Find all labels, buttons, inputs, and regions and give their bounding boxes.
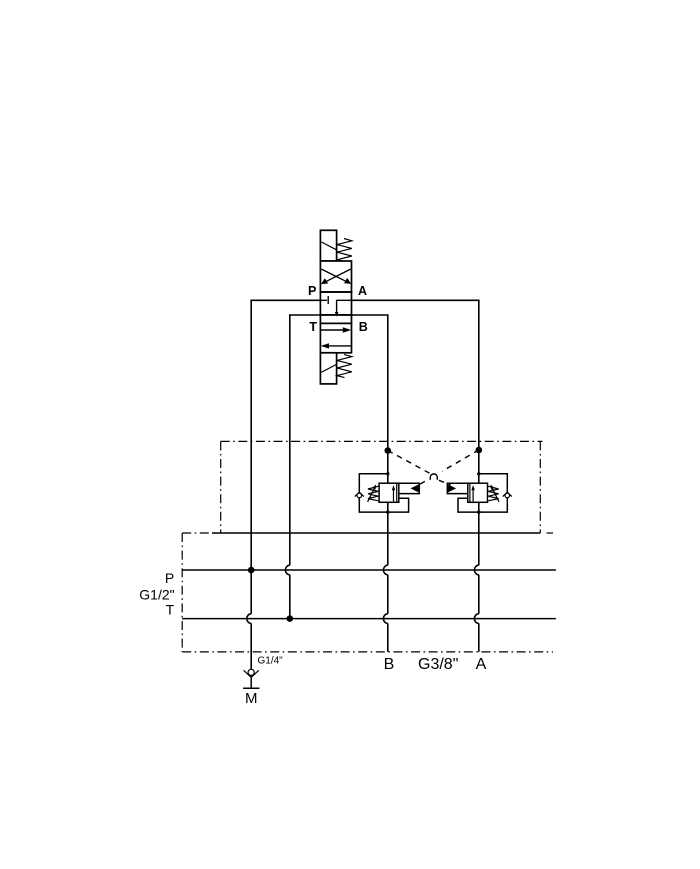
- boundary box of counterbalance block: [221, 441, 543, 533]
- check valve ball: [357, 493, 362, 498]
- valve gap zone box: [320, 315, 351, 324]
- wire hop: T-branch over P line: [285, 565, 289, 575]
- solenoid box bottom: [320, 353, 336, 384]
- junction node CB2 bottom: [477, 510, 480, 513]
- solenoid slash bottom: [321, 364, 336, 372]
- wire hop: A over T line: [474, 614, 478, 624]
- blocked P stub: [320, 296, 328, 304]
- wire B: valve B port down through left counterbalance valve: [352, 315, 388, 652]
- junction node T line: [287, 615, 294, 622]
- svg-text:G3/8": G3/8": [418, 656, 458, 673]
- check valve ball M: [248, 669, 254, 675]
- flow arrow up: [393, 490, 395, 502]
- body divider: [396, 483, 398, 502]
- wire hop: B over T line: [383, 614, 387, 624]
- counterbalance valve CB1 (left, on B line): [355, 474, 420, 512]
- parallel path arrow right: [320, 329, 344, 331]
- solenoid box top: [320, 230, 336, 261]
- spring: [488, 486, 499, 501]
- manifold boundary: [182, 533, 553, 652]
- pilot arrowhead: [411, 484, 419, 492]
- port M terminal bar: [243, 687, 259, 689]
- junction node CB1 top: [386, 472, 389, 475]
- wire hop: P-branch over T line: [247, 614, 251, 624]
- pilot line hop arc: [430, 474, 437, 480]
- manifold left edge: [181, 533, 183, 652]
- svg-text:A: A: [358, 284, 367, 298]
- manifold P gallery line: [182, 569, 556, 571]
- wire T: valve T port to manifold T line: [290, 315, 321, 619]
- check valve ball: [505, 493, 510, 498]
- gauge port M with check: [243, 669, 259, 688]
- spring adjust arrow: [368, 487, 375, 502]
- wire hop: A over P line: [474, 565, 478, 575]
- spring top: [337, 239, 352, 262]
- wire P: valve P port to manifold P line and down to M port: [251, 300, 320, 669]
- svg-text:P: P: [308, 284, 316, 298]
- parallel path arrow left: [328, 345, 352, 347]
- junction node on A line: [476, 447, 483, 454]
- svg-text:P: P: [165, 570, 174, 586]
- check valve seat M: [244, 670, 259, 677]
- valve port zone box: [320, 292, 351, 315]
- svg-text:T: T: [166, 602, 175, 618]
- check valve seat: [355, 492, 364, 496]
- svg-text:M: M: [245, 690, 258, 707]
- pilot arrowhead: [448, 484, 456, 492]
- wire hop: B over P line: [383, 565, 387, 575]
- spring adjust arrow: [492, 487, 499, 502]
- junction node P line: [248, 567, 255, 574]
- check valve seat: [503, 492, 512, 496]
- counterbalance valve CB2 (right, on A line): [447, 474, 512, 512]
- wire A: valve A port down through right counterbalance valve: [352, 300, 479, 652]
- manifold T gallery line: [182, 618, 556, 620]
- svg-text:A: A: [476, 656, 487, 673]
- directional valve DV1: [320, 230, 351, 384]
- pilot line from B node to right CB valve: [388, 451, 451, 485]
- svg-text:G1/2": G1/2": [139, 587, 174, 603]
- svg-text:B: B: [359, 320, 368, 334]
- valve position box crossed: [320, 261, 351, 292]
- junction node CB1 bottom: [386, 510, 389, 513]
- manifold bottom edge: [182, 651, 553, 653]
- valve body: [468, 483, 488, 502]
- manifold top edge: [182, 532, 212, 534]
- svg-text:G1/4": G1/4": [258, 655, 284, 666]
- pilot box: [447, 483, 468, 493]
- drain loop: [458, 498, 479, 512]
- crossed path arrow 1: [321, 269, 348, 282]
- drain loop: [388, 498, 409, 512]
- spring: [368, 486, 379, 501]
- pilot line from A node to left CB valve: [419, 450, 479, 485]
- flow arrow up: [472, 490, 474, 502]
- valve position box parallel: [320, 323, 351, 352]
- crossed path arrow 2: [324, 269, 351, 283]
- solenoid slash top: [321, 242, 336, 250]
- pilot box: [399, 483, 420, 493]
- body divider: [469, 483, 471, 502]
- junction node CB2 top: [477, 472, 480, 475]
- svg-text:B: B: [384, 656, 395, 673]
- spring bottom: [337, 354, 352, 377]
- wire M stub: [250, 677, 252, 688]
- bypass loop with check valve: [479, 474, 508, 512]
- bypass loop with check valve: [359, 474, 388, 512]
- valve body: [379, 483, 399, 502]
- junction node on B line: [385, 447, 392, 454]
- A to B path: [337, 300, 352, 313]
- svg-text:T: T: [309, 320, 317, 334]
